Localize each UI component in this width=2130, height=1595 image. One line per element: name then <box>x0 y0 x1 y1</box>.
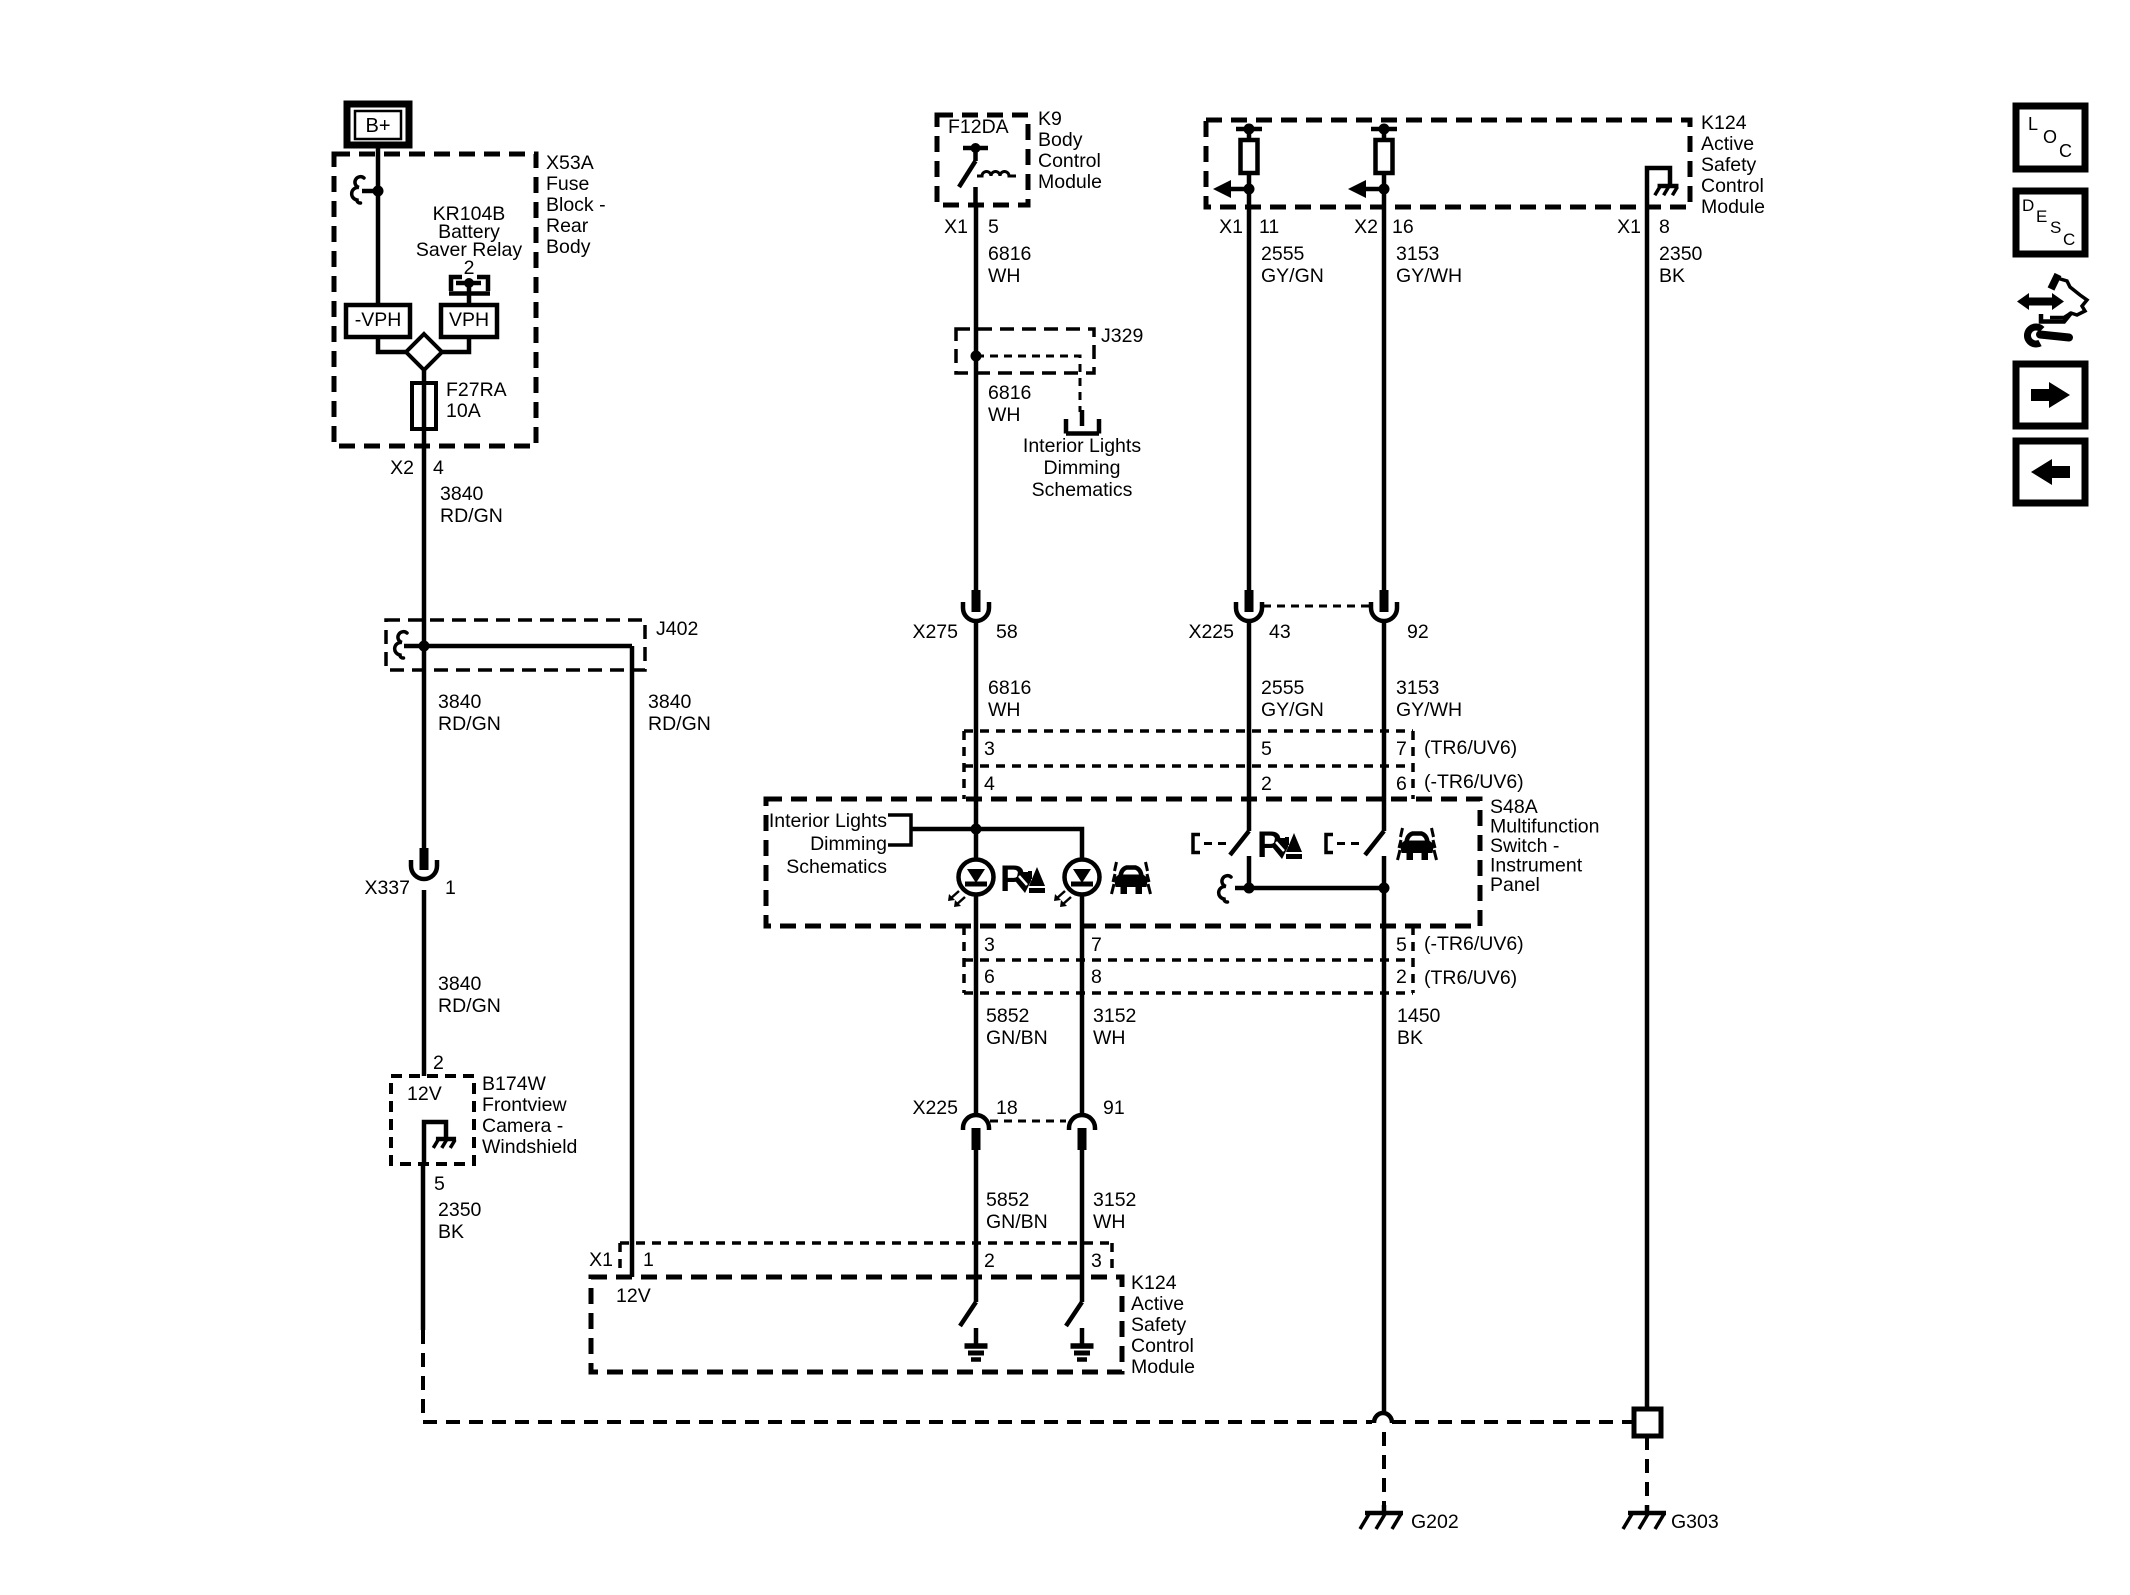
svg-text:GY/WH: GY/WH <box>1396 265 1462 287</box>
label F27RA 10A <box>446 379 507 422</box>
splice J402 junction <box>395 632 632 658</box>
svg-text:RD/GN: RD/GN <box>648 713 711 735</box>
wire 3840 RD/GN right branch to K124 <box>632 646 711 1277</box>
pin 7 lower <box>1091 934 1102 956</box>
pin 5 lower <box>1396 934 1407 956</box>
svg-text:1450: 1450 <box>1397 1005 1441 1027</box>
connector X225 pin 43 <box>1188 590 1290 643</box>
svg-text:8: 8 <box>1659 216 1670 238</box>
svg-text:O: O <box>2043 127 2057 147</box>
indicator LED lane assist <box>1054 860 1100 908</box>
terminal -VPH <box>346 305 410 337</box>
svg-text:Active: Active <box>1131 1293 1184 1315</box>
svg-text:Module: Module <box>1131 1356 1195 1378</box>
label K9 Body Control Module <box>1038 108 1102 193</box>
connector X337 pin 1 <box>364 848 455 899</box>
svg-text:4: 4 <box>433 457 444 479</box>
pin 2 frontview camera <box>433 1052 444 1074</box>
svg-text:Frontview: Frontview <box>482 1094 567 1116</box>
svg-text:J329: J329 <box>1101 325 1143 347</box>
switch contact trailer <box>1193 831 1249 902</box>
svg-text:K124: K124 <box>1131 1272 1177 1294</box>
svg-text:BK: BK <box>438 1221 464 1243</box>
wire 6816 WH <box>976 207 1031 590</box>
note TR6/UV6 <box>1424 737 1517 759</box>
svg-text:6816: 6816 <box>988 243 1031 265</box>
svg-text:F27RA: F27RA <box>446 379 507 401</box>
label K124 Active Safety Control Module (bottom) <box>1131 1272 1195 1378</box>
svg-text:J402: J402 <box>656 618 698 640</box>
svg-text:3152: 3152 <box>1093 1005 1136 1027</box>
svg-text:5: 5 <box>1396 934 1407 956</box>
off-page connector to dimming schematics <box>1066 410 1099 434</box>
svg-text:2555: 2555 <box>1261 243 1305 265</box>
dashed ground wire down-left <box>421 1330 425 1422</box>
svg-text:BK: BK <box>1397 1027 1423 1049</box>
LED wires through S48A <box>976 894 1082 1115</box>
svg-text:3153: 3153 <box>1396 677 1439 699</box>
svg-text:X225: X225 <box>912 1097 958 1119</box>
svg-text:2: 2 <box>433 1052 444 1074</box>
svg-text:D: D <box>2022 196 2034 215</box>
svg-text:X53A: X53A <box>546 152 594 174</box>
label 12V inside camera <box>407 1083 442 1105</box>
label K124 Active Safety Control Module (top) <box>1701 112 1765 218</box>
svg-text:GY/GN: GY/GN <box>1261 265 1324 287</box>
pin X2 16 <box>1354 216 1414 238</box>
wire 3153 GY/WH <box>1384 207 1462 590</box>
relay contact KR104B <box>352 177 384 203</box>
svg-text:5: 5 <box>1261 738 1272 760</box>
svg-text:3: 3 <box>984 934 995 956</box>
wires into diamond node <box>378 337 469 352</box>
svg-text:92: 92 <box>1407 621 1429 643</box>
splice J329 box <box>956 329 1094 373</box>
wire label 5852 GN/BN <box>986 1005 1048 1049</box>
connector X225 pin 18 <box>912 1097 1017 1150</box>
svg-text:Module: Module <box>1701 196 1765 218</box>
wire 1450 BK inside S48A <box>1382 856 1387 1412</box>
svg-text:(TR6/UV6): (TR6/UV6) <box>1424 967 1517 989</box>
icon P trailer (left) <box>1000 858 1045 899</box>
svg-text:G303: G303 <box>1671 1511 1719 1533</box>
battery terminal B+ <box>347 104 409 145</box>
internal switch to ground pin 2 <box>960 1302 988 1360</box>
circuit breaker F12DA symbol <box>959 143 1016 207</box>
pin 3 <box>984 738 995 760</box>
pin X1 1 bottom <box>589 1249 654 1271</box>
svg-text:Schematics: Schematics <box>786 856 887 878</box>
svg-text:10A: 10A <box>446 400 481 422</box>
icon next arrow <box>2016 364 2085 426</box>
svg-text:RD/GN: RD/GN <box>438 995 501 1017</box>
label B174W Frontview Camera - Windshield <box>482 1073 577 1158</box>
wire hop over ground bus <box>1374 1413 1392 1423</box>
svg-text:6: 6 <box>1396 773 1407 795</box>
label Interior Lights Dimming Schematics (top) <box>1023 435 1141 501</box>
pin 3 lower <box>984 934 995 956</box>
svg-text:6: 6 <box>984 966 995 988</box>
fuse block X53A box <box>334 154 536 446</box>
svg-text:1: 1 <box>445 877 456 899</box>
pin 5 camera <box>434 1173 445 1195</box>
pin X1 5 of K9 <box>944 216 999 238</box>
svg-text:Schematics: Schematics <box>1032 479 1133 501</box>
svg-text:GY/GN: GY/GN <box>1261 699 1324 721</box>
svg-text:2: 2 <box>984 1250 995 1272</box>
svg-text:GN/BN: GN/BN <box>986 1027 1048 1049</box>
connector X225 pin 92 <box>1371 590 1429 643</box>
junction block <box>1634 1409 1661 1436</box>
svg-text:3: 3 <box>1091 1250 1102 1272</box>
svg-text:3153: 3153 <box>1396 243 1439 265</box>
icon car lane assist (left) <box>1112 862 1151 894</box>
icon car lane assist (switch) <box>1398 828 1437 860</box>
svg-text:Block -: Block - <box>546 194 606 216</box>
svg-text:43: 43 <box>1269 621 1291 643</box>
svg-text:Module: Module <box>1038 171 1102 193</box>
relay coil KR104B <box>449 277 490 305</box>
svg-text:Interior Lights: Interior Lights <box>1023 435 1141 457</box>
svg-text:2: 2 <box>1396 966 1407 988</box>
svg-text:5: 5 <box>988 216 999 238</box>
connector overlay below S48A <box>964 926 1413 993</box>
internal dimming feed wire <box>911 824 1082 861</box>
splice J402 box <box>386 620 645 670</box>
svg-text:Safety: Safety <box>1701 154 1757 176</box>
label Interior Lights Dimming Schematics (in S48A) <box>769 810 887 878</box>
svg-text:1: 1 <box>643 1249 654 1271</box>
svg-text:X1: X1 <box>1219 216 1243 238</box>
active safety control module K124 box (bottom) <box>591 1277 1122 1372</box>
label S48A Multifunction Switch - Instrument Panel <box>1490 796 1599 896</box>
splice J329 junction and branch <box>971 351 1081 413</box>
svg-text:WH: WH <box>1093 1027 1126 1049</box>
connector X275 pin 58 <box>912 590 1017 643</box>
pin X1 8 <box>1617 216 1670 238</box>
wire 3840 RD/GN to camera <box>424 890 501 1076</box>
svg-text:K124: K124 <box>1701 112 1747 134</box>
svg-text:K9: K9 <box>1038 108 1062 130</box>
switch contact lane assist <box>1326 831 1384 855</box>
svg-text:X337: X337 <box>364 877 410 899</box>
svg-text:Body: Body <box>546 236 591 258</box>
svg-text:7: 7 <box>1091 934 1102 956</box>
svg-text:F12DA: F12DA <box>948 116 1009 138</box>
label J402 <box>656 618 698 640</box>
pin X2 4 <box>390 457 444 479</box>
icon previous arrow <box>2016 441 2085 503</box>
svg-text:-VPH: -VPH <box>355 309 402 331</box>
pin 8 lower <box>1091 966 1102 988</box>
svg-text:X2: X2 <box>390 457 414 479</box>
svg-text:(-TR6/UV6): (-TR6/UV6) <box>1424 771 1524 793</box>
connector X225 pin 91 <box>1069 1097 1125 1150</box>
svg-text:3: 3 <box>984 738 995 760</box>
svg-text:2: 2 <box>464 257 475 279</box>
svg-text:BK: BK <box>1659 265 1685 287</box>
label X53A Fuse Block - Rear Body <box>546 152 606 258</box>
svg-text:X1: X1 <box>589 1249 613 1271</box>
diamond junction <box>406 334 442 370</box>
camera internal ground <box>424 1122 456 1163</box>
svg-text:3152: 3152 <box>1093 1189 1136 1211</box>
fuse F27RA 10A <box>412 370 436 429</box>
icon DESC <box>2016 191 2085 254</box>
svg-text:2350: 2350 <box>1659 243 1703 265</box>
svg-text:58: 58 <box>996 621 1018 643</box>
wire 6816 WH to switch <box>976 621 1031 860</box>
wire 5852 GN/BN lower <box>976 1150 1048 1302</box>
wire fuse to J402 <box>422 429 427 641</box>
pin 7 <box>1396 738 1407 760</box>
wire 2555 GY/GN lower <box>1249 621 1324 831</box>
wire B+ to fuse block <box>376 145 381 305</box>
svg-text:6816: 6816 <box>988 382 1031 404</box>
svg-text:WH: WH <box>988 699 1021 721</box>
svg-text:2555: 2555 <box>1261 677 1305 699</box>
svg-text:6816: 6816 <box>988 677 1031 699</box>
svg-text:G202: G202 <box>1411 1511 1459 1533</box>
pin 3 K124 <box>1091 1250 1102 1272</box>
svg-text:16: 16 <box>1392 216 1414 238</box>
label J329 <box>1101 325 1143 347</box>
note TR6/UV6 lower <box>1424 967 1517 989</box>
dashed ground bus <box>423 1420 1634 1424</box>
svg-text:5: 5 <box>434 1173 445 1195</box>
label 12V K124 <box>616 1285 651 1307</box>
pin 6 <box>1396 773 1407 795</box>
svg-text:(-TR6/UV6): (-TR6/UV6) <box>1424 933 1524 955</box>
svg-text:X275: X275 <box>912 621 958 643</box>
svg-text:11: 11 <box>1259 216 1279 238</box>
ground G303 <box>1623 1505 1719 1533</box>
wire 2555 GY/GN <box>1249 207 1324 590</box>
svg-text:B174W: B174W <box>482 1073 547 1095</box>
svg-text:WH: WH <box>1093 1211 1126 1233</box>
svg-text:3840: 3840 <box>438 691 482 713</box>
pin 2 lower <box>1396 966 1407 988</box>
internal switch to ground pin 3 <box>1066 1302 1094 1360</box>
connector overlay on K124 (bottom) <box>620 1243 1112 1271</box>
svg-text:7: 7 <box>1396 738 1407 760</box>
note -TR6/UV6 <box>1424 771 1524 793</box>
pin 2 K124 <box>984 1250 995 1272</box>
dashed wire to G303 <box>1645 1436 1649 1505</box>
svg-text:2: 2 <box>1261 773 1272 795</box>
connector overlay above S48A <box>964 731 1413 799</box>
resistor in K124 pin 11 <box>1213 124 1262 208</box>
note -TR6/UV6 lower <box>1424 933 1524 955</box>
svg-text:C: C <box>2059 141 2072 161</box>
svg-text:WH: WH <box>988 265 1021 287</box>
wire 2350 BK right <box>1647 207 1703 1409</box>
indicator LED park/trailer <box>948 860 994 908</box>
wire 3153 GY/WH lower <box>1384 621 1462 831</box>
svg-text:Camera -: Camera - <box>482 1115 563 1137</box>
fuse F12DA label <box>948 116 1009 138</box>
svg-text:Dimming: Dimming <box>1044 457 1121 479</box>
resistor in K124 pin 16 <box>1348 124 1397 208</box>
svg-text:12V: 12V <box>616 1285 651 1307</box>
svg-text:Active: Active <box>1701 133 1754 155</box>
svg-text:Control: Control <box>1038 150 1101 172</box>
svg-text:L: L <box>2028 114 2038 134</box>
active safety control module K124 box (top) <box>1206 120 1690 207</box>
pin 4 <box>984 773 995 795</box>
svg-text:Fuse: Fuse <box>546 173 589 195</box>
wire 2350 BK from camera <box>423 1164 482 1330</box>
wire 3152 WH lower <box>1082 1150 1136 1302</box>
svg-text:3840: 3840 <box>438 973 482 995</box>
terminal VPH <box>441 305 497 337</box>
ground G202 <box>1360 1505 1459 1533</box>
icon vehicle diagnostics <box>2017 275 2087 345</box>
svg-text:91: 91 <box>1103 1097 1125 1119</box>
switch common link wire <box>1235 883 1390 894</box>
svg-text:3840: 3840 <box>648 691 692 713</box>
svg-text:B+: B+ <box>365 115 390 137</box>
pin X1 11 <box>1219 216 1279 238</box>
svg-text:12V: 12V <box>407 1083 442 1105</box>
svg-text:(TR6/UV6): (TR6/UV6) <box>1424 737 1517 759</box>
label KR104B Battery Saver Relay pin 2 <box>416 203 522 279</box>
svg-text:5852: 5852 <box>986 1189 1029 1211</box>
svg-text:VPH: VPH <box>449 309 489 331</box>
wire label 6816 WH below J329 <box>988 382 1031 426</box>
svg-text:WH: WH <box>988 404 1021 426</box>
svg-text:Rear: Rear <box>546 215 589 237</box>
svg-text:5852: 5852 <box>986 1005 1029 1027</box>
svg-text:8: 8 <box>1091 966 1102 988</box>
svg-text:C: C <box>2063 230 2075 249</box>
svg-text:GY/WH: GY/WH <box>1396 699 1462 721</box>
wire 3840 RD/GN left branch <box>424 646 501 848</box>
svg-text:Safety: Safety <box>1131 1314 1187 1336</box>
wire label 1450 BK <box>1397 1005 1441 1049</box>
svg-text:Body: Body <box>1038 129 1083 151</box>
svg-text:RD/GN: RD/GN <box>440 505 503 527</box>
icon P trailer (switch) <box>1257 824 1302 865</box>
svg-text:X1: X1 <box>944 216 968 238</box>
svg-text:Control: Control <box>1701 175 1764 197</box>
pin 2 <box>1261 773 1272 795</box>
pin 5 <box>1261 738 1272 760</box>
svg-text:Panel: Panel <box>1490 874 1540 896</box>
wire label 3840 RD/GN <box>440 483 503 527</box>
svg-text:Interior Lights: Interior Lights <box>769 810 887 832</box>
svg-text:E: E <box>2036 207 2047 226</box>
svg-text:X1: X1 <box>1617 216 1641 238</box>
svg-text:S: S <box>2050 218 2061 237</box>
svg-text:X2: X2 <box>1354 216 1378 238</box>
icon LOC <box>2016 106 2085 169</box>
dashed connector link 18-91 <box>990 1120 1066 1123</box>
callout bracket <box>888 815 911 845</box>
svg-text:4: 4 <box>984 773 995 795</box>
svg-text:GN/BN: GN/BN <box>986 1211 1048 1233</box>
wire label 3152 WH <box>1093 1005 1136 1049</box>
pin 6 lower <box>984 966 995 988</box>
svg-text:3840: 3840 <box>440 483 484 505</box>
svg-text:RD/GN: RD/GN <box>438 713 501 735</box>
internal ground of K124 <box>1647 168 1678 207</box>
svg-text:18: 18 <box>996 1097 1018 1119</box>
svg-text:2350: 2350 <box>438 1199 482 1221</box>
body control module K9 box <box>937 115 1028 205</box>
frontview camera B174W box <box>391 1076 474 1164</box>
svg-text:Control: Control <box>1131 1335 1194 1357</box>
svg-text:X225: X225 <box>1188 621 1234 643</box>
svg-text:Dimming: Dimming <box>810 833 887 855</box>
dashed connector link 43-92 <box>1263 605 1370 608</box>
multifunction switch S48A box <box>766 799 1480 926</box>
dashed wire to G202 <box>1382 1432 1386 1505</box>
svg-text:Windshield: Windshield <box>482 1136 577 1158</box>
